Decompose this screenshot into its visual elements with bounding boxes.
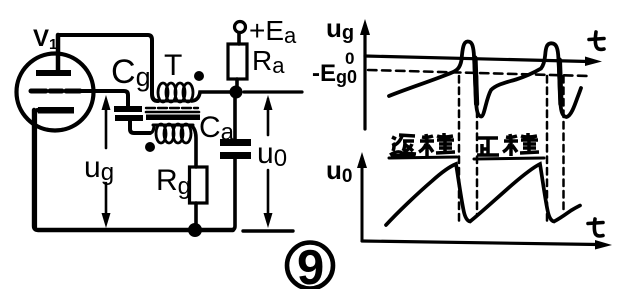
svg-text:9: 9	[297, 241, 324, 289]
ug graph y-axis	[360, 19, 370, 129]
capacitor Cg	[114, 106, 143, 121]
u0 graph y-axis	[357, 152, 367, 241]
figure number 9	[287, 241, 333, 289]
ug pulse 2 thick edge	[559, 60, 561, 104]
terminal +Ea	[235, 22, 246, 33]
wire: node down to Ca	[233, 92, 237, 139]
svg-text:Ra: Ra	[252, 45, 285, 78]
underline 正程	[474, 158, 544, 159]
ug measure arrow down	[102, 183, 111, 228]
ug pulse 1 thick edge	[475, 58, 477, 104]
ug measure arrow up	[102, 95, 111, 148]
underline 返程	[389, 157, 457, 158]
ug graph t-axis	[365, 56, 602, 66]
capacitor Ca	[220, 139, 251, 159]
ground rail segment (u0 reference)	[243, 229, 293, 232]
wire: secondary left entry	[150, 127, 154, 133]
wire: +Ea to Ra	[237, 33, 241, 44]
tube V1 plate	[36, 35, 71, 76]
transformer T core	[146, 108, 200, 120]
svg-text:+Ea: +Ea	[249, 15, 297, 48]
svg-text:Ca: Ca	[199, 111, 235, 146]
svg-text:T: T	[164, 49, 182, 82]
svg-text:u0: u0	[326, 155, 352, 187]
ground rail	[34, 110, 233, 230]
svg-text:ug: ug	[326, 13, 354, 44]
tube V1 grid (dashed)	[31, 89, 80, 94]
wire: Cg bottom to secondary winding	[130, 121, 150, 133]
svg-text:u0: u0	[257, 137, 287, 172]
u0 reference top line	[244, 90, 302, 93]
resistor Rg	[190, 167, 208, 203]
ug waveform	[389, 41, 581, 117]
node: ground junction	[188, 223, 202, 237]
u0 measure arrow down	[264, 170, 273, 228]
transformer T primary winding	[155, 83, 193, 102]
wire: secondary right end down to Rg	[192, 126, 196, 167]
label t (bottom graph)	[588, 219, 603, 236]
svg-text:ug: ug	[84, 151, 114, 186]
u0 graph t-axis	[362, 240, 612, 250]
dashed marker D	[562, 76, 565, 210]
tube V1 cathode	[35, 107, 74, 228]
u0 sawtooth waveform	[386, 164, 580, 225]
dashed level -Eg0	[368, 70, 590, 76]
dashed marker B	[476, 76, 479, 216]
polarity dot (secondary)	[145, 142, 155, 152]
wire: Rg bottom to ground rail	[194, 203, 198, 228]
resistor Ra	[228, 44, 247, 79]
wire: plate to top rail and down to transformer	[58, 35, 158, 101]
svg-text:V1: V1	[33, 25, 57, 53]
dashed marker C	[546, 76, 549, 222]
svg-text:Cg: Cg	[111, 53, 151, 92]
svg-text:Rg: Rg	[156, 164, 191, 200]
label 正程 (forward)	[477, 133, 539, 156]
svg-text:0: 0	[345, 49, 354, 68]
u0 measure arrow up	[264, 95, 273, 135]
wire: primary right end to node	[192, 92, 230, 101]
dashed marker A	[458, 76, 461, 222]
label t (top graph)	[589, 32, 604, 49]
wire: Ca bottom to ground rail	[231, 159, 235, 230]
transformer T secondary winding	[153, 124, 193, 143]
wire: Ra bottom to node	[235, 79, 239, 91]
polarity dot (primary)	[194, 71, 204, 81]
wire: grid to Cg	[80, 91, 128, 106]
label 返程 (flyback)	[390, 133, 455, 156]
tube V1 envelope	[17, 54, 94, 131]
node: output junction	[230, 86, 243, 99]
